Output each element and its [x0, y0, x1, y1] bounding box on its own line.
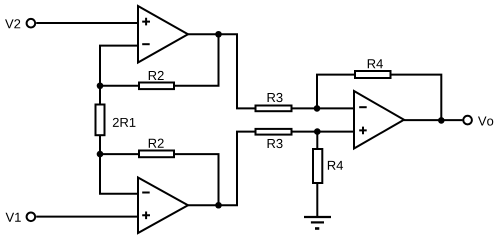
- wire V1 terminal to U2 non-inverting input: [36, 216, 138, 218]
- wire node C down to upper R2 right end: [175, 34, 219, 86]
- ground: [304, 217, 331, 229]
- wire grounded R4 bottom to ground: [316, 183, 318, 217]
- label R2 (lower): [149, 139, 164, 148]
- node F (U3 non-inverting input junction): [314, 128, 321, 135]
- wire node B to lower R2 left end: [100, 153, 139, 155]
- label R2 (upper): [149, 71, 164, 80]
- resistor 2R1: [96, 105, 105, 136]
- resistor R2 (upper): [139, 83, 174, 90]
- wire upper R3 right end to U3 inverting input: [293, 107, 355, 109]
- terminal V2: [27, 19, 36, 28]
- wire U2 output to node D: [188, 204, 219, 206]
- wire node E up to feedback R4: [317, 75, 355, 109]
- wire 2R1 bottom to node B: [99, 135, 101, 154]
- label V2: [5, 19, 20, 28]
- wire lower R3 right end to U3 non-inverting input: [293, 131, 355, 133]
- resistor R3 (upper): [256, 106, 292, 112]
- node E (U3 inverting input junction): [314, 105, 321, 112]
- label Vo: [478, 117, 493, 126]
- label R3 (lower): [268, 139, 283, 148]
- wire U1 output to node C: [188, 33, 219, 35]
- node G (output junction with feedback): [438, 117, 445, 124]
- wire node B down to U2 inverting input: [100, 154, 138, 194]
- wire node A to upper R2 left end: [100, 85, 139, 87]
- wire node A to 2R1 top: [99, 86, 101, 105]
- resistor R4 (feedback): [355, 71, 391, 78]
- label 2R1: [113, 118, 136, 127]
- resistor R3 (lower): [256, 129, 292, 135]
- wire node A to U1 inverting input: [100, 46, 138, 86]
- label R4 (to ground): [328, 161, 343, 170]
- wire node F down to grounded R4: [316, 132, 318, 149]
- node A (junction U1-, R2 upper, 2R1 top): [97, 82, 104, 89]
- node D (U2 output junction): [215, 202, 222, 209]
- label R3 (upper): [268, 93, 283, 102]
- op-amp U3: [354, 91, 404, 149]
- op-amp U2: [138, 178, 188, 234]
- resistor R4 (to ground): [313, 149, 322, 183]
- wire feedback R4 right end down to node G: [392, 75, 442, 121]
- label V1: [6, 213, 21, 222]
- label R4 (feedback): [368, 59, 383, 68]
- op-amp U1: [138, 6, 188, 63]
- wire lower R2 right end to node D: [175, 154, 219, 205]
- wire U3 output to Vo terminal: [404, 119, 462, 121]
- wire node D to corner and up to lower R3: [219, 132, 255, 206]
- wire V2 terminal to U1 non-inverting input: [36, 22, 138, 24]
- wire node C to corner and down to upper R3: [219, 34, 255, 108]
- terminal Vo: [463, 116, 472, 125]
- node C (U1 output junction): [215, 31, 222, 38]
- resistor R2 (lower): [139, 151, 174, 158]
- node B (junction U2-, R2 lower, 2R1 bottom): [97, 151, 104, 158]
- terminal V1: [27, 213, 36, 222]
